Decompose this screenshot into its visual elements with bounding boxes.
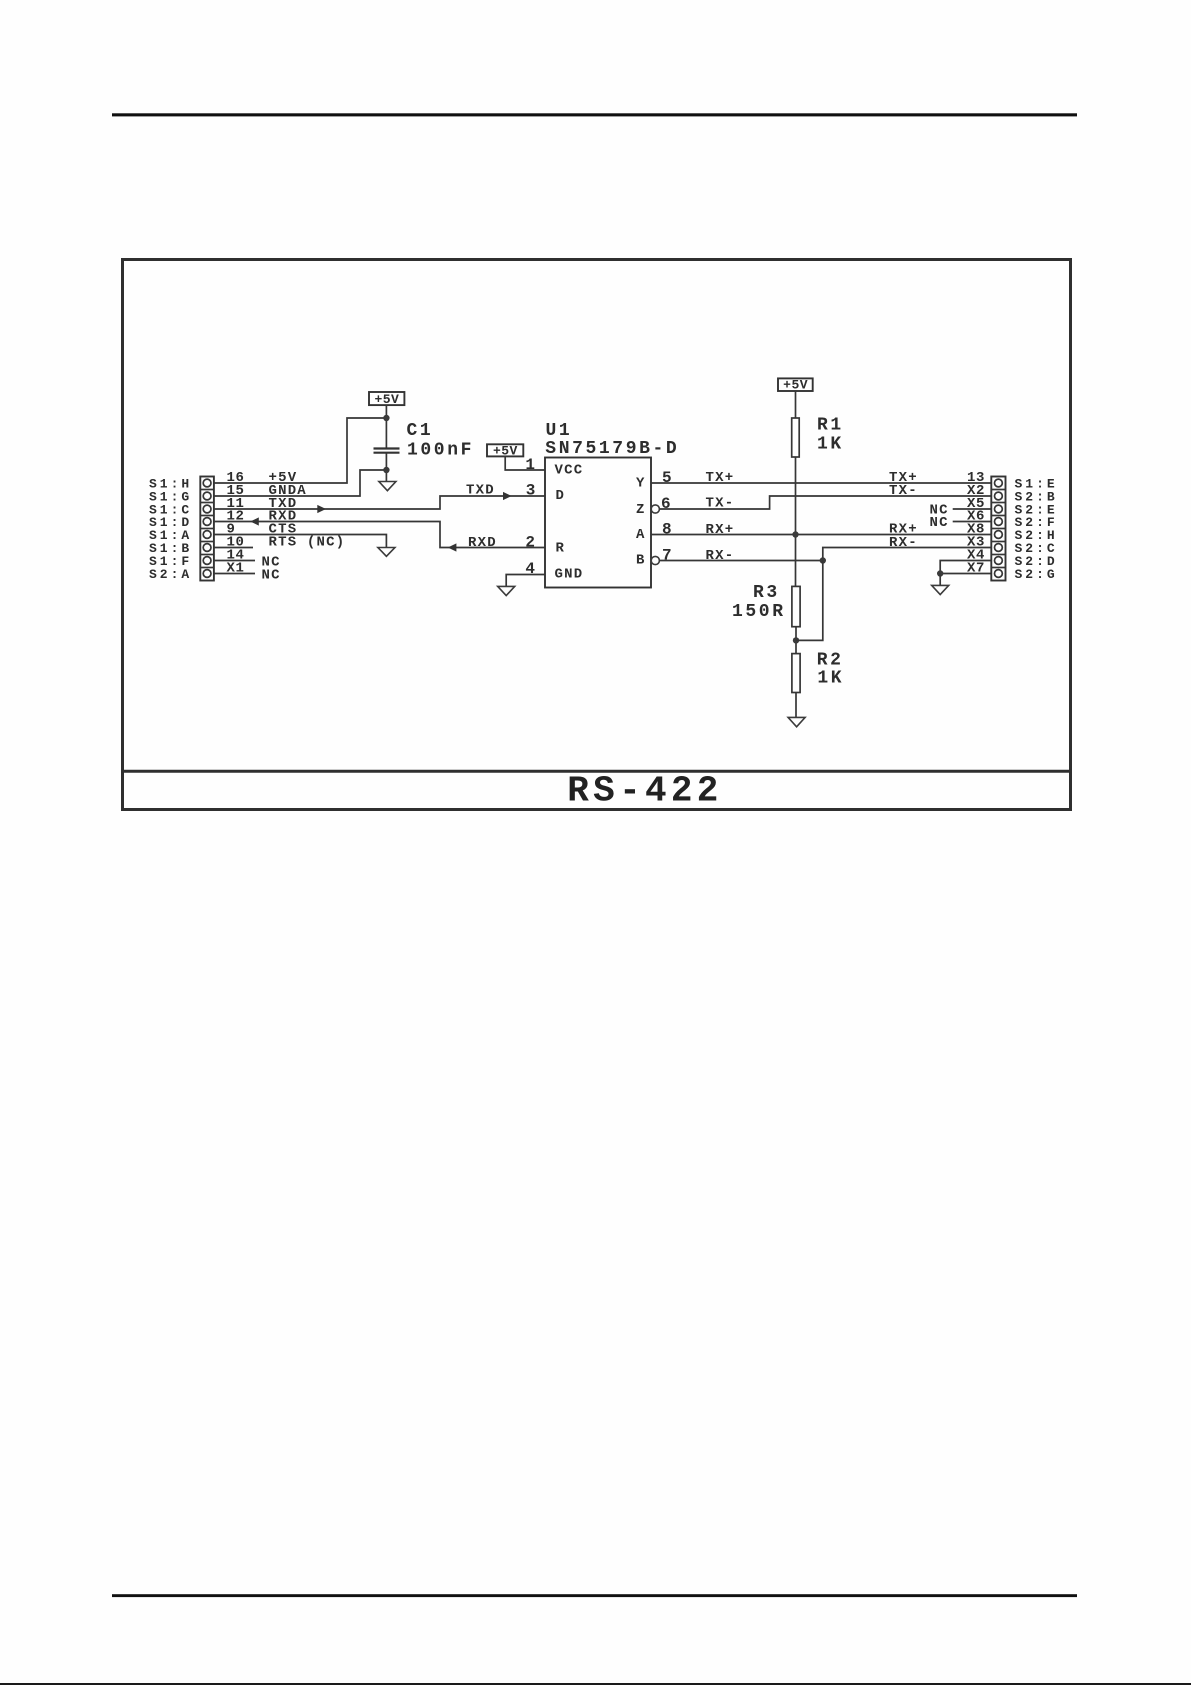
svg-text:1K: 1K: [817, 435, 844, 455]
pin circle S1:F: [203, 557, 211, 565]
ground under C1: [379, 482, 396, 491]
wire TX- pin 6: [659, 496, 991, 509]
svg-text:1K: 1K: [817, 668, 844, 688]
inversion bubble pin 7: [651, 556, 659, 564]
junction R3-R2 node: [793, 637, 799, 643]
svg-text:TX-: TX-: [706, 496, 735, 512]
arrow RXD at connector: [250, 517, 259, 525]
svg-text:Y: Y: [636, 476, 646, 492]
junction RX+ node: [792, 531, 798, 537]
svg-text:B: B: [636, 553, 646, 569]
pin circle S2:G: [995, 570, 1003, 578]
svg-text:7: 7: [662, 547, 672, 565]
junction RX- node: [820, 557, 826, 563]
wire RX- pin 7: [659, 560, 822, 562]
svg-text:6: 6: [661, 495, 671, 513]
resistor R3: [792, 586, 800, 626]
svg-text:TX+: TX+: [706, 470, 735, 486]
svg-text:8: 8: [662, 521, 672, 539]
arrow TXD at U1: [503, 492, 512, 500]
pin circle S1:G: [203, 492, 211, 500]
svg-text:NC: NC: [262, 568, 281, 584]
junction +5V node: [383, 415, 389, 421]
wire X4 row: [940, 561, 991, 574]
ground under CTS: [378, 548, 395, 557]
wire C1 to ground: [385, 453, 387, 482]
pin circle S1:H: [203, 479, 211, 487]
connector S1 left housing: [200, 477, 214, 581]
svg-text:2: 2: [525, 534, 535, 552]
pin circle S1:E: [995, 479, 1003, 487]
page footer rule: [112, 1594, 1077, 1597]
page bottom edge: [0, 1683, 1191, 1685]
ground at right connector: [932, 585, 949, 594]
svg-text:R2: R2: [817, 650, 844, 670]
svg-text:R: R: [556, 541, 566, 557]
svg-text:100nF: 100nF: [407, 441, 474, 461]
svg-text:VCC: VCC: [555, 463, 584, 479]
pin circle S2:B: [995, 492, 1003, 500]
wire TXD row 11: [214, 496, 545, 509]
pin circle S2:C: [995, 544, 1003, 552]
svg-text:1: 1: [525, 456, 535, 474]
pin circle S2:E: [995, 505, 1003, 513]
wire NC stub X5: [953, 508, 992, 510]
wire row 14 stub: [214, 560, 255, 562]
svg-text:S2:A: S2:A: [149, 567, 192, 582]
wire RX+ pin 8: [651, 534, 991, 536]
svg-text:S2:G: S2:G: [1015, 567, 1058, 582]
wire RTS row 10 stub: [214, 547, 253, 549]
wire R3 to R2: [795, 627, 797, 654]
svg-text:GND: GND: [555, 567, 584, 583]
junction X7 ground node: [937, 570, 943, 576]
pin circle S2:A: [203, 570, 211, 578]
ground under R2: [788, 717, 805, 726]
page header rule: [112, 113, 1077, 116]
wire GND pin 4: [506, 575, 545, 587]
pin circle S2:H: [995, 531, 1003, 539]
svg-text:U1: U1: [546, 421, 573, 441]
wire RX- upper run: [823, 548, 992, 561]
wire VCC pin 1: [505, 456, 545, 470]
title bar separator: [121, 770, 1071, 773]
svg-text:RX+: RX+: [706, 522, 735, 538]
svg-text:RX-: RX-: [889, 535, 918, 551]
svg-text:RTS (NC): RTS (NC): [269, 535, 346, 551]
resistor R1: [792, 418, 800, 457]
wire RXD row 12: [214, 522, 545, 548]
svg-text:SN75179B-D: SN75179B-D: [545, 439, 679, 459]
wire CTS row 9: [214, 535, 387, 548]
connector S2 right housing: [991, 477, 1005, 581]
wire +5V box to C1: [385, 405, 387, 448]
+5V power box left: [369, 392, 404, 407]
pin circle S1:A: [203, 531, 211, 539]
svg-text:C1: C1: [407, 421, 434, 441]
schematic frame: [123, 260, 1071, 810]
capacitor C1: [374, 449, 400, 453]
junction GNDA node: [383, 467, 389, 473]
svg-text:150R: 150R: [732, 602, 786, 622]
wire row X1 stub: [214, 573, 255, 575]
svg-text:X1: X1: [227, 561, 245, 577]
svg-text:R3: R3: [753, 583, 780, 603]
pin circle S1:B: [203, 544, 211, 552]
inversion bubble pin 6: [651, 505, 659, 513]
wire R1 to R3: [795, 457, 797, 586]
wire R2 to ground: [795, 693, 797, 718]
svg-text:TXD: TXD: [466, 483, 495, 499]
svg-text:5: 5: [662, 469, 672, 487]
pin circle S1:D: [203, 518, 211, 526]
arrow RXD at U1: [448, 543, 457, 551]
svg-text:TX-: TX-: [889, 483, 918, 499]
pin circle S2:D: [995, 557, 1003, 565]
svg-text:NC: NC: [930, 515, 949, 531]
arrow TXD mid: [317, 505, 326, 513]
svg-text:+5V: +5V: [374, 392, 399, 407]
wire TX+ pin 5: [651, 482, 991, 484]
+5V power box at U1: [487, 443, 523, 458]
wire NC stub X6: [953, 521, 992, 523]
svg-text:R1: R1: [817, 416, 844, 436]
svg-text:RX-: RX-: [706, 548, 735, 564]
ground under U1: [498, 586, 515, 595]
svg-text:RS-422: RS-422: [567, 771, 722, 812]
wire node to RX- riser: [796, 561, 823, 641]
pin circle S1:C: [203, 505, 211, 513]
wire X7 row: [940, 573, 991, 575]
svg-text:RXD: RXD: [468, 535, 497, 551]
wire +5V to R1: [795, 391, 797, 418]
svg-text:+5V: +5V: [783, 378, 808, 393]
wire +5V row 16: [214, 418, 387, 483]
wire GNDA row 15: [214, 470, 387, 496]
svg-text:Z: Z: [636, 502, 646, 518]
+5V power box at R1: [778, 378, 813, 393]
resistor R2: [792, 654, 800, 693]
pin circle S2:F: [995, 518, 1003, 526]
wire to right ground: [939, 574, 941, 586]
svg-text:D: D: [556, 488, 566, 504]
svg-text:A: A: [636, 527, 646, 543]
svg-text:+5V: +5V: [493, 443, 518, 458]
svg-text:3: 3: [526, 482, 536, 500]
op-amp U1 body: [545, 458, 651, 588]
